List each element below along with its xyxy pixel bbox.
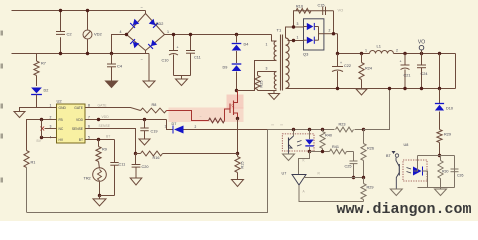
svg-text:C25: C25 (345, 165, 352, 169)
svg-text:D2: D2 (44, 89, 49, 93)
svg-text:L1: L1 (377, 44, 382, 49)
svg-text:C21: C21 (404, 74, 411, 78)
svg-text:www.diangon.com: www.diangon.com (337, 201, 472, 218)
svg-text:C4: C4 (117, 64, 123, 69)
svg-text:T1: T1 (277, 28, 282, 33)
svg-text:BT: BT (386, 154, 391, 158)
svg-text:VDD: VDD (76, 118, 84, 122)
svg-text:R16: R16 (153, 156, 160, 160)
svg-text:4: 4 (120, 30, 122, 34)
svg-text:C24: C24 (421, 72, 428, 76)
svg-text:R23: R23 (339, 123, 346, 127)
svg-text:R9: R9 (102, 148, 107, 152)
svg-text:R29: R29 (444, 133, 451, 137)
svg-text:TR2: TR2 (84, 177, 91, 181)
svg-text:C20: C20 (142, 165, 149, 169)
svg-text:+: + (340, 61, 342, 65)
svg-text:R26: R26 (367, 147, 374, 151)
svg-text:2: 2 (396, 49, 398, 53)
svg-text:R8: R8 (152, 103, 157, 107)
svg-text:R10: R10 (296, 5, 303, 9)
svg-text:U7: U7 (282, 172, 287, 176)
svg-text:C11: C11 (194, 56, 201, 60)
svg-text:2: 2 (329, 29, 331, 33)
svg-text:C15: C15 (318, 4, 325, 8)
svg-text:C22: C22 (344, 64, 351, 68)
svg-text:~: ~ (200, 115, 202, 119)
svg-text:D9: D9 (223, 66, 228, 70)
svg-text:R15: R15 (241, 162, 245, 169)
svg-text:D10: D10 (446, 107, 453, 111)
svg-text:U2: U2 (57, 99, 63, 104)
svg-text:R1: R1 (31, 161, 36, 165)
svg-text:C19: C19 (151, 130, 158, 134)
svg-text:BT: BT (79, 138, 83, 142)
svg-text:R41: R41 (332, 145, 339, 149)
svg-text:C2: C2 (67, 32, 73, 37)
svg-text:VO: VO (418, 40, 425, 46)
svg-text:Q3: Q3 (303, 52, 309, 57)
svg-text:R40: R40 (325, 134, 332, 138)
svg-text:U8: U8 (404, 143, 409, 147)
svg-text:GND: GND (59, 106, 67, 110)
svg-text:C10: C10 (162, 59, 169, 63)
svg-text:GATE: GATE (98, 104, 108, 108)
svg-text:3: 3 (266, 67, 268, 71)
svg-text:3: 3 (297, 22, 299, 26)
svg-text:1: 1 (266, 43, 268, 47)
svg-text:+: + (177, 46, 179, 50)
svg-text:D7: D7 (172, 122, 177, 126)
svg-text:R29: R29 (367, 186, 374, 190)
svg-text:R7: R7 (41, 62, 46, 66)
svg-text:1: 1 (365, 49, 367, 53)
svg-text:C26: C26 (457, 174, 463, 178)
svg-text:BT: BT (106, 135, 110, 139)
svg-text:R25: R25 (260, 81, 264, 88)
svg-text:GATE: GATE (74, 106, 84, 110)
svg-text:R30: R30 (442, 170, 448, 174)
svg-text:1: 1 (297, 36, 299, 40)
svg-text:R24: R24 (365, 67, 372, 71)
svg-text:BD2: BD2 (156, 22, 163, 26)
svg-text:SENSE: SENSE (72, 127, 84, 131)
svg-text:VD2: VD2 (94, 32, 103, 37)
svg-text:VDD: VDD (102, 115, 110, 119)
svg-text:+: + (400, 60, 402, 64)
svg-text:SENSE: SENSE (99, 124, 111, 128)
svg-text:C11: C11 (119, 163, 126, 167)
svg-text:VO: VO (338, 8, 344, 13)
svg-text:1: 1 (167, 30, 169, 34)
svg-text:2: 2 (195, 125, 197, 129)
svg-text:D4: D4 (244, 43, 249, 47)
svg-text:1: 1 (165, 125, 167, 129)
svg-text:NC: NC (59, 127, 64, 131)
svg-text:HV: HV (59, 138, 64, 142)
